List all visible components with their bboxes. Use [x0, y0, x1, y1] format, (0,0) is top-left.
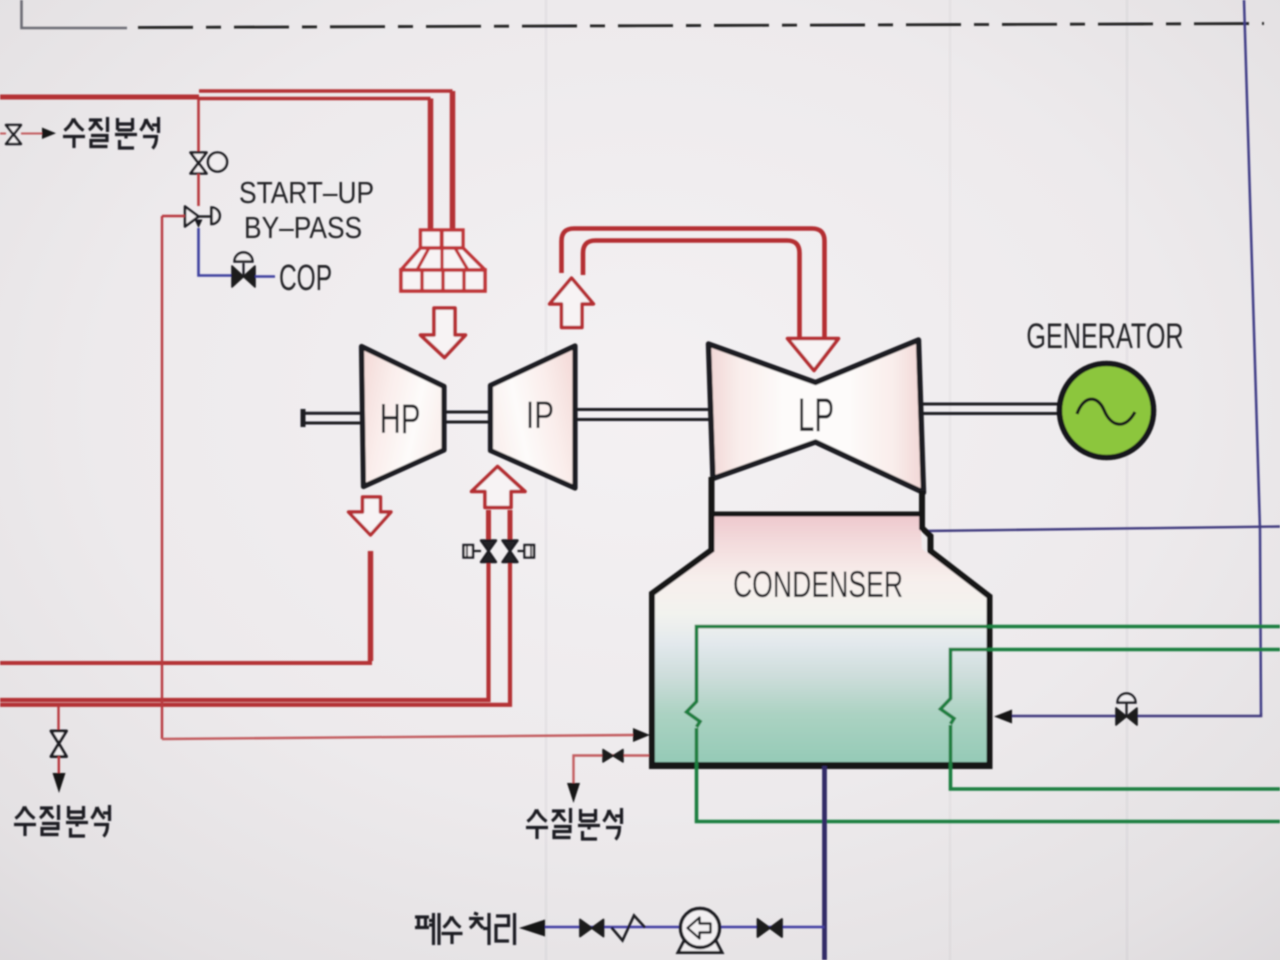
pump P1: [678, 909, 722, 953]
hot reheat return inner line: [583, 241, 800, 341]
hot reheat supply double line lower to IP: [0, 553, 510, 705]
steam chest trapezoid: [401, 248, 485, 270]
shaft HP-IP segment: [444, 412, 491, 422]
turbine IP: [491, 346, 576, 488]
sample valve bottom-left: [51, 731, 67, 757]
HP exhaust line down: [368, 551, 373, 661]
steam chest bottom bar: [401, 270, 485, 291]
hot reheat return outer line from IP to LP: [562, 229, 825, 341]
turbine LP: [709, 340, 924, 493]
waste water pipe: [545, 926, 825, 929]
condenser neck left wall: [652, 477, 712, 766]
shaft end bar left: [301, 409, 306, 427]
svg-text:CONDENSER: CONDENSER: [733, 564, 903, 606]
svg-text:IP: IP: [526, 395, 554, 437]
korean label water quality analysis top-left: [63, 117, 159, 149]
sample arrow down bottom-left: [53, 773, 66, 793]
main steam header double line upper: [199, 89, 453, 93]
bypass line valve to three-way: [197, 174, 200, 207]
COP blue line down: [199, 228, 233, 276]
generator sine wave: [1077, 399, 1135, 424]
sample arrow top-left: [42, 128, 56, 140]
svg-text:START–UP: START–UP: [239, 176, 374, 210]
shaft left segment: [303, 413, 361, 423]
condensate drain purple vertical: [822, 766, 827, 960]
blue line valve to COP text: [255, 275, 275, 278]
red stub at left edge: [0, 133, 6, 135]
valve on right IP leg: [503, 541, 535, 563]
waste water arrow: [519, 920, 545, 937]
valve near drain: [758, 919, 783, 937]
IP exhaust hollow up arrow: [550, 278, 594, 328]
red stub to sample arrow: [21, 133, 42, 135]
purple makeup water pipe to condenser: [1010, 713, 1261, 716]
main steam vertical double line right leg: [450, 91, 456, 230]
tube sheet zigzag left: [687, 701, 701, 727]
svg-text:HP: HP: [380, 395, 421, 443]
three-way control valve: [185, 207, 220, 229]
water sample line top-left valve: [6, 125, 21, 144]
condenser sample line with valve: [574, 756, 650, 784]
IP stop valve left leg upper segment: [486, 510, 491, 540]
circulating water outlet pipe upper: [697, 627, 1280, 703]
HP exhaust hollow arrow below HP: [349, 497, 392, 535]
arrow into condenser right wall: [994, 710, 1012, 724]
faint paper creases: [545, 0, 548, 960]
condenser bottom plate: [649, 762, 993, 769]
arrow into condenser left wall: [633, 728, 650, 742]
condenser top flange line: [712, 512, 923, 517]
main steam vertical double line left leg: [428, 99, 434, 231]
main steam header single line left: [0, 95, 199, 100]
dashed boundary line top: [138, 24, 1264, 28]
IP stop valve right leg upper segment: [508, 510, 513, 540]
korean label water quality analysis condenser: [526, 808, 622, 840]
control valve CV1 on makeup line: [1116, 694, 1137, 726]
generator circle: [1060, 364, 1154, 458]
turbine HP: [362, 347, 445, 487]
red stub below valve: [58, 756, 60, 773]
cold reheat line to left edge: [0, 661, 372, 665]
valve on left IP leg: [464, 541, 497, 563]
shaft IP-LP segment: [575, 410, 710, 420]
svg-text:LP: LP: [798, 389, 834, 442]
circulating water right leg to bottom: [951, 725, 1280, 789]
COP control valve: [232, 253, 255, 288]
svg-text:COP: COP: [279, 257, 332, 298]
loop seal zigzag: [612, 916, 646, 941]
purple pipe from condenser neck to right edge: [925, 527, 1280, 532]
HP inlet hollow arrow: [421, 308, 466, 358]
sample arrow down near condenser: [567, 783, 580, 803]
red line from three-way valve to down leg: [162, 215, 185, 217]
steam chest top box: [421, 230, 464, 248]
korean label water quality analysis bottom-left: [14, 805, 110, 837]
circulating water second outlet pipe: [951, 650, 1280, 700]
svg-text:BY–PASS: BY–PASS: [244, 211, 362, 245]
IP inlet hollow arrow: [472, 467, 526, 508]
main steam header double line lower: [199, 97, 431, 101]
purple vertical boundary pipe right: [1244, 0, 1261, 713]
tube sheet zigzag right: [941, 698, 955, 724]
condenser neck right wall: [922, 491, 990, 766]
sample branch on hot reheat line: [57, 706, 59, 731]
grey corner frame top-left: [22, 0, 128, 28]
circulating water left leg to bottom: [697, 728, 1280, 822]
globe valve with handwheel on bypass: [191, 153, 228, 174]
hot reheat supply double line upper to IP: [0, 553, 489, 700]
LP inlet arrowhead: [788, 339, 839, 371]
valve before waste treatment: [580, 920, 604, 937]
korean label waste water treatment: [415, 913, 515, 945]
thin red line to condenser: [162, 735, 633, 739]
svg-text:GENERATOR: GENERATOR: [1026, 317, 1183, 356]
long bypass vertical line down: [161, 216, 163, 739]
startup bypass branch vertical at header: [197, 99, 200, 152]
valve on condenser sample line: [603, 750, 623, 763]
condenser body fill: [653, 514, 989, 764]
shaft LP-generator segment: [923, 404, 1060, 414]
